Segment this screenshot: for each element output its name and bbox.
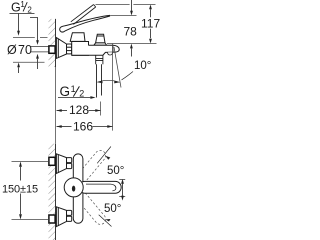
dashed lever down 50deg bbox=[74, 189, 108, 227]
svg-text:78: 78 bbox=[124, 25, 138, 39]
extension line B lever top bbox=[111, 15, 137, 17]
body capsule (bottom view) bbox=[73, 154, 83, 223]
G 1/2 leader arrow down bbox=[17, 14, 20, 36]
svg-text:70: 70 bbox=[18, 43, 32, 57]
lever open lines (side view) bbox=[71, 5, 96, 25]
50deg upper annotation bbox=[97, 147, 111, 164]
svg-text:150±15: 150±15 bbox=[2, 183, 38, 195]
supply union square on wall bbox=[49, 46, 55, 53]
dimension 78 bbox=[130, 0, 133, 57]
supply pipe stub lines bbox=[31, 46, 49, 48]
Ø70 leader corner with down arrow bbox=[30, 18, 39, 45]
lever inner line bbox=[86, 184, 116, 191]
dimension 166 bbox=[57, 125, 113, 128]
svg-text:128: 128 bbox=[69, 103, 89, 117]
wall surface extension line bbox=[55, 67, 57, 144]
dimension 128 bbox=[57, 109, 101, 112]
dimension 150±15 bbox=[12, 162, 49, 220]
union nut lower (bottom view) bbox=[67, 210, 72, 221]
dimension 117 bbox=[149, 5, 152, 44]
lever solid (bottom view) bbox=[79, 181, 121, 193]
svg-text:G: G bbox=[60, 84, 71, 99]
svg-text:G: G bbox=[11, 0, 21, 14]
O70 lower arrow up at x18.6 bbox=[17, 63, 20, 74]
escutcheon lower (bottom view) bbox=[56, 207, 66, 227]
svg-text:10°: 10° bbox=[134, 60, 151, 72]
svg-text:50°: 50° bbox=[104, 203, 121, 215]
spout axis line 10deg bbox=[114, 47, 121, 88]
union nut upper (bottom view) bbox=[67, 158, 72, 169]
50deg lower annotation bbox=[99, 215, 112, 227]
diverter knob bbox=[94, 34, 107, 45]
cartridge block bbox=[70, 33, 85, 42]
screw slot bbox=[72, 186, 75, 192]
10deg curved leader with arrow bbox=[122, 72, 134, 80]
svg-text:117: 117 bbox=[141, 16, 160, 30]
supply square upper (bottom view) bbox=[49, 157, 55, 165]
faucet body (side view) bbox=[72, 42, 89, 56]
extension line C outlet level bbox=[107, 43, 157, 45]
shower outlet with collar bbox=[96, 55, 103, 97]
extension line under G1/2 arrow bbox=[13, 37, 48, 39]
G 1/2 mid label bbox=[60, 84, 85, 99]
svg-text:1: 1 bbox=[71, 84, 76, 94]
union nut (side view) bbox=[67, 44, 72, 54]
supply square lower (bottom view) bbox=[49, 215, 55, 223]
dashed lever up 50deg bbox=[74, 148, 108, 186]
cartridge circle (bottom view) bbox=[64, 178, 83, 197]
Ø70 lower arrow up bbox=[36, 54, 39, 69]
extension for 128 at outlet bbox=[100, 102, 102, 116]
wall hatched band (bottom view) bbox=[49, 144, 56, 240]
lever closed (side view) bbox=[60, 15, 110, 32]
G 1/2 label top left bbox=[10, 0, 35, 14]
svg-text:166: 166 bbox=[73, 119, 93, 133]
G 1/2 mid underline leader arrow bbox=[58, 96, 96, 99]
svg-text:50°: 50° bbox=[107, 165, 124, 177]
10deg small arc with arrow bbox=[97, 80, 119, 83]
wall hatched band (side view) bbox=[49, 19, 56, 67]
escutcheon upper (bottom view) bbox=[56, 154, 66, 174]
svg-text:2: 2 bbox=[27, 5, 32, 14]
escutcheon cone (side view) bbox=[56, 38, 66, 59]
angle arc double arrow at lever tip bbox=[119, 179, 125, 201]
extension line A open lever top bbox=[96, 4, 156, 6]
spout bbox=[72, 45, 120, 55]
lower extension line bbox=[13, 61, 45, 63]
svg-text:Ø: Ø bbox=[7, 43, 17, 57]
extension for 166 at spout tip bbox=[112, 44, 114, 131]
